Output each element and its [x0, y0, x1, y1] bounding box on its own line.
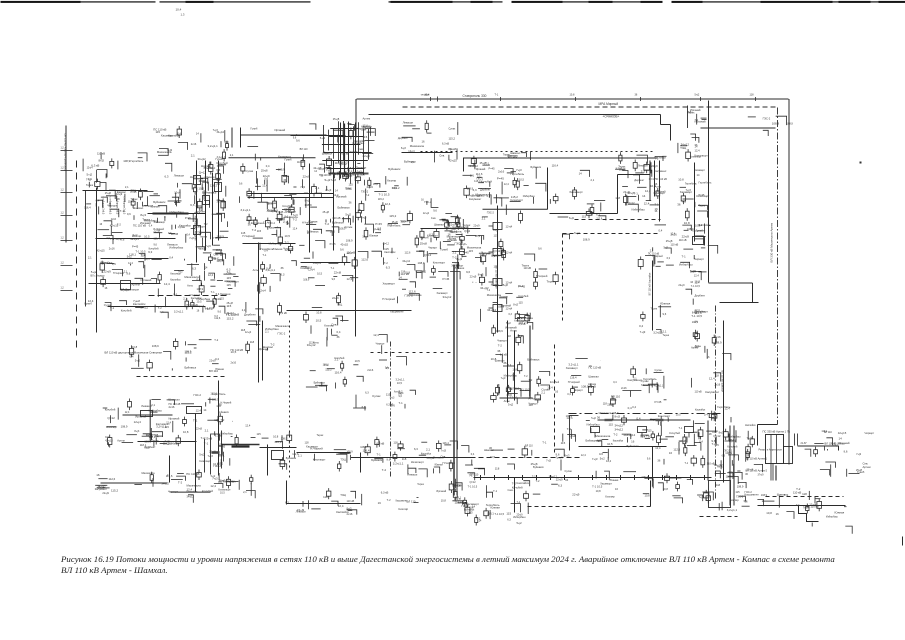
- svg-text:Сев.: Сев.: [358, 147, 364, 151]
- node chain box: [493, 249, 502, 256]
- dense column bl box: [197, 473, 202, 478]
- center chain c wire: [498, 384, 500, 395]
- left blob east wire: [169, 232, 175, 234]
- center chain b wire: [516, 296, 523, 298]
- left blob east wire: [202, 238, 204, 247]
- loop area b wire: [333, 318, 338, 325]
- node midright a stub: [572, 386, 574, 389]
- svg-text:Терек: Терек: [152, 438, 160, 442]
- svg-text:Буйнакск: Буйнакск: [314, 381, 326, 385]
- svg-text:Чирюрт: Чирюрт: [529, 402, 539, 406]
- svg-text:Сев.: Сев.: [323, 150, 329, 154]
- svg-text:Махачкала: Махачкала: [467, 246, 482, 250]
- center right a stub: [591, 213, 593, 216]
- svg-text:Терек: Терек: [699, 205, 706, 208]
- center chain b stub: [526, 313, 528, 316]
- left blob east wire: [215, 237, 228, 239]
- left blob south wire: [151, 278, 156, 283]
- left blob sw wire: [135, 278, 143, 284]
- svg-text:118: 118: [716, 483, 721, 487]
- center chain c box: [491, 396, 496, 400]
- wire col x729: [729, 426, 731, 506]
- svg-text:Н.Чиркей: Н.Чиркей: [568, 380, 580, 384]
- svg-text:ТЭЦ: ТЭЦ: [680, 146, 687, 150]
- row y350 west wire: [188, 344, 197, 346]
- mid blob a wire: [256, 178, 258, 190]
- node right mid box: [638, 260, 643, 267]
- right col bottom stub: [702, 465, 704, 468]
- labels right of artem stub: [815, 447, 817, 450]
- svg-text:Избербаш: Избербаш: [353, 142, 365, 145]
- center chain c box: [506, 388, 510, 392]
- svg-text:Сев.: Сев.: [439, 154, 445, 158]
- svg-text:Касумкент: Касумкент: [745, 493, 760, 497]
- row y350 west stub: [175, 338, 177, 341]
- node Artem top wire: [701, 117, 707, 119]
- mid blob a stub: [291, 204, 293, 207]
- svg-text:10,5: 10,5: [519, 177, 525, 181]
- bus Makhachkala stub: [625, 203, 627, 206]
- wire mkh a: [649, 161, 651, 201]
- svg-text:36: 36: [745, 500, 748, 504]
- svg-text:14: 14: [477, 194, 481, 198]
- right col lower wire: [722, 354, 731, 361]
- left blob core wire: [124, 194, 126, 202]
- svg-text:Р=45: Р=45: [132, 245, 139, 249]
- bus Chiryurt box: [349, 131, 353, 137]
- node Kizlyar area wire: [225, 141, 229, 143]
- chain mid b wire: [374, 459, 383, 463]
- loop area c wire: [306, 386, 318, 388]
- left blob sw stub: [102, 277, 104, 280]
- chain mid g box: [691, 458, 696, 463]
- right col bottom wire: [731, 460, 733, 466]
- bus Makhachkala box: [619, 155, 622, 161]
- svg-text:115,2: 115,2: [111, 488, 118, 492]
- wire dashed down: [562, 234, 564, 321]
- right col upper wire: [694, 202, 696, 207]
- wire dashed mid: [371, 352, 453, 354]
- bus Makhachkala wire: [655, 156, 663, 161]
- svg-text:Т-1: Т-1: [493, 489, 498, 493]
- right col y420 stub: [725, 429, 727, 432]
- center col a stub: [421, 228, 423, 231]
- svg-text:2,1: 2,1: [191, 154, 195, 158]
- svg-text:6,3 кВ: 6,3 кВ: [569, 434, 576, 438]
- wire left lower horizontal: [108, 306, 206, 308]
- svg-text:115,2: 115,2: [641, 475, 648, 479]
- svg-text:14: 14: [314, 170, 317, 173]
- node Kizlyar area stub: [226, 141, 228, 144]
- left blob east wire: [213, 250, 222, 256]
- svg-text:Н.Чиркей: Н.Чиркей: [221, 402, 232, 405]
- svg-text:0,4: 0,4: [613, 381, 617, 384]
- svg-text:Каспийск: Каспийск: [745, 424, 756, 427]
- svg-text:Терек: Терек: [86, 183, 94, 187]
- loop area c box: [341, 364, 344, 369]
- svg-text:Т-1: Т-1: [154, 220, 158, 223]
- svg-text:22+j9: 22+j9: [651, 164, 658, 168]
- mid blob a wire: [258, 202, 268, 209]
- svg-text:Чирюрт: Чирюрт: [497, 339, 507, 343]
- row y420 a stub: [623, 415, 625, 418]
- node bl b wire: [181, 403, 194, 405]
- left blob south wire: [191, 263, 193, 276]
- center chain b wire: [529, 313, 531, 319]
- row y420 b wire: [686, 437, 688, 443]
- right col lower wire: [706, 349, 708, 359]
- chain mid b wire: [336, 454, 347, 463]
- svg-text:115,2: 115,2: [325, 368, 332, 372]
- node midright b wire: [656, 382, 658, 390]
- svg-text:Q=12: Q=12: [470, 481, 477, 484]
- svg-text:115: 115: [735, 490, 740, 494]
- svg-text:2,1: 2,1: [151, 403, 155, 407]
- wire stub x687: [687, 106, 689, 129]
- chain mid f wire: [603, 452, 608, 454]
- center chain a stub: [502, 255, 504, 258]
- wire left loop vertical: [258, 243, 260, 383]
- wire mkh c: [659, 161, 661, 222]
- svg-text:2,1: 2,1: [285, 215, 289, 219]
- svg-text:2х16: 2х16: [109, 247, 115, 251]
- node right mid2 wire: [658, 306, 671, 308]
- left blob east box: [221, 201, 226, 208]
- svg-text:36: 36: [213, 257, 217, 261]
- mid blob c wire: [342, 219, 351, 225]
- mid blob d wire: [313, 229, 322, 234]
- wire thick gray: [153, 212, 189, 214]
- wire tick: [676, 475, 678, 480]
- bus Makhachkala wire: [650, 204, 659, 206]
- right col y420 wire: [693, 434, 695, 446]
- svg-text:25+j8: 25+j8: [227, 302, 234, 305]
- left blob east wire: [215, 254, 225, 259]
- row y420 b stub: [652, 431, 654, 434]
- right col y420 wire: [698, 432, 700, 439]
- svg-text:115: 115: [469, 249, 474, 253]
- row y350 west stub: [175, 347, 177, 350]
- svg-text:Кочубей: Кочубей: [727, 444, 738, 448]
- labels right of artem wire: [805, 449, 811, 457]
- loop area d wire: [379, 335, 387, 343]
- svg-text:Махачкала: Махачкала: [447, 234, 461, 238]
- svg-text:16: 16: [615, 487, 618, 491]
- svg-text:22+j9: 22+j9: [572, 493, 579, 497]
- svg-text:Шамхал: Шамхал: [263, 345, 274, 349]
- node Kizlyar area stub: [226, 148, 228, 151]
- center col a wire: [443, 240, 451, 242]
- svg-text:7+j3: 7+j3: [856, 452, 862, 456]
- wire center up2: [617, 175, 619, 214]
- center chain c stub: [519, 362, 521, 365]
- svg-text:115,2: 115,2: [389, 214, 396, 218]
- mid blob c wire: [337, 173, 346, 179]
- svg-text:14: 14: [579, 172, 583, 176]
- row y350 west wire: [138, 354, 140, 366]
- left blob south box: [199, 286, 204, 292]
- svg-text:2х16: 2х16: [191, 143, 197, 146]
- svg-text:108,9: 108,9: [772, 122, 780, 126]
- right col upper wire: [708, 245, 718, 253]
- bus Chiryurt feeder: [333, 128, 335, 159]
- svg-text:Буйнакск: Буйнакск: [286, 457, 297, 460]
- svg-text:Буйнакск: Буйнакск: [404, 160, 416, 164]
- row y420 b wire: [641, 434, 649, 436]
- svg-text:Р=45: Р=45: [655, 400, 662, 404]
- scan bar dark segment: [511, 1, 563, 3]
- left blob east stub: [210, 162, 212, 165]
- svg-text:108,9: 108,9: [715, 341, 722, 345]
- svg-text:10,8: 10,8: [570, 94, 575, 97]
- svg-text:с отбором 2x6,3: с отбором 2x6,3: [123, 197, 126, 215]
- svg-text:Гуниб: Гуниб: [250, 126, 257, 130]
- svg-text:3,2+j1,1: 3,2+j1,1: [396, 378, 406, 381]
- svg-text:ТЭЦ: ТЭЦ: [340, 459, 345, 462]
- left of artem stub: [751, 436, 753, 439]
- mid blob c stub: [313, 184, 315, 187]
- mid blob e box: [359, 204, 364, 211]
- node right mid wire: [666, 264, 674, 266]
- node bl a box: [108, 438, 112, 445]
- wire dashed c1: [575, 219, 661, 221]
- row y420 b wire: [659, 438, 667, 440]
- left blob core wire: [158, 206, 167, 213]
- center chain a wire: [460, 239, 462, 249]
- row y420 b stub: [658, 433, 660, 436]
- svg-text:34+j12: 34+j12: [187, 496, 195, 499]
- sw chain wire: [171, 479, 183, 481]
- left blob east stub: [199, 199, 201, 202]
- node Artem top wire: [702, 118, 707, 120]
- svg-text:115: 115: [349, 183, 354, 187]
- svg-text:115: 115: [712, 430, 717, 434]
- svg-text:10,8: 10,8: [319, 167, 325, 171]
- left blob east wire: [218, 201, 224, 209]
- wire busy column: [218, 381, 220, 476]
- left blob south box: [191, 303, 194, 307]
- svg-text:9,6: 9,6: [296, 139, 300, 143]
- wire left vertical: [96, 188, 98, 333]
- svg-text:116,4: 116,4: [729, 439, 736, 442]
- wire below top long: [464, 157, 657, 159]
- svg-text:22+j9: 22+j9: [682, 234, 690, 238]
- svg-text:Т-2: Т-2: [178, 480, 183, 484]
- wire bottom long: [474, 477, 712, 479]
- node midright b wire: [651, 379, 653, 387]
- svg-text:115: 115: [227, 276, 232, 280]
- scan bar dark segment: [1, 1, 81, 3]
- svg-text:Р=45: Р=45: [374, 228, 381, 232]
- node bl a wire: [122, 442, 134, 444]
- mid blob a wire: [246, 219, 258, 221]
- left blob south wire: [165, 297, 167, 307]
- labels right edge wire: [820, 470, 830, 476]
- dense column bl wire: [221, 444, 223, 455]
- left blob nw box: [95, 182, 100, 187]
- wire drop to Chiryurt: [355, 99, 357, 138]
- row y420 a box: [622, 418, 627, 422]
- svg-text:8+j3: 8+j3: [401, 147, 406, 150]
- chain mid g wire: [687, 445, 697, 447]
- wire sw h2: [171, 491, 211, 493]
- mid blob c wire: [348, 215, 350, 222]
- svg-text:ГЭС-2: ГЭС-2: [194, 393, 202, 397]
- svg-text:7+j3: 7+j3: [501, 377, 506, 380]
- chain mid a stub: [281, 457, 283, 460]
- svg-text:Т-1: Т-1: [262, 253, 266, 257]
- svg-text:Кочубей: Кочубей: [217, 161, 229, 165]
- svg-text:10,5: 10,5: [490, 455, 496, 459]
- chain mid d wire: [491, 449, 503, 451]
- chain mid e stub: [524, 455, 526, 458]
- svg-text:Ирганай: Ирганай: [141, 278, 152, 282]
- svg-text:3,2+j1,1: 3,2+j1,1: [208, 144, 219, 148]
- svg-text:12,4: 12,4: [645, 189, 651, 193]
- node center d wire: [353, 407, 366, 409]
- svg-text:ПС 110 кВ: ПС 110 кВ: [655, 177, 668, 181]
- node bl a wire: [142, 435, 153, 437]
- left of artem stub: [751, 444, 753, 447]
- svg-text:Кочубей: Кочубей: [335, 356, 345, 360]
- left blob core wire: [143, 191, 153, 193]
- svg-text:Южная: Южная: [205, 175, 215, 179]
- left blob core wire: [154, 233, 160, 238]
- right col bottom wire: [733, 446, 735, 457]
- left blob core wire: [154, 232, 163, 234]
- left blob core wire: [130, 264, 132, 266]
- center chain a stub: [503, 257, 505, 260]
- wire drop B: [267, 445, 269, 476]
- svg-text:116,4: 116,4: [552, 163, 559, 167]
- svg-text:118,1: 118,1: [420, 270, 427, 274]
- right col upper wire: [695, 239, 704, 246]
- right col mid wire: [693, 255, 695, 259]
- chain mid b stub: [338, 469, 340, 472]
- svg-text:Т-2: Т-2: [325, 222, 330, 226]
- svg-text:Гергебиль: Гергебиль: [685, 182, 698, 185]
- mid blob b stub: [267, 218, 269, 221]
- svg-text:Касумкент: Касумкент: [95, 488, 108, 491]
- center chain c box: [537, 379, 541, 383]
- svg-text:16: 16: [378, 501, 382, 505]
- svg-text:34+j12: 34+j12: [161, 483, 169, 486]
- left of artem wire: [745, 451, 747, 462]
- mid blob c stub: [357, 210, 359, 213]
- mid blob c box: [301, 161, 305, 167]
- svg-text:36: 36: [337, 335, 340, 339]
- left blob south stub: [159, 280, 161, 283]
- right col upper wire: [695, 235, 703, 237]
- mid blob d stub: [354, 257, 356, 260]
- wire col x733: [733, 426, 735, 506]
- left blob nw stub: [140, 197, 142, 200]
- bus Chiryurt stub: [344, 172, 346, 175]
- bus Chiryurt wire: [352, 171, 363, 173]
- svg-text:9,6: 9,6: [647, 457, 651, 460]
- bus Makhachkala wire: [637, 195, 639, 201]
- svg-text:6,3: 6,3: [281, 272, 285, 276]
- wire tick: [690, 475, 692, 480]
- svg-text:112,6: 112,6: [190, 176, 197, 179]
- bus Chiryurt wire: [347, 123, 351, 125]
- svg-text:110 кВ: 110 кВ: [671, 243, 679, 247]
- svg-text:10,5: 10,5: [650, 184, 656, 188]
- bus Makhachkala box: [644, 165, 650, 171]
- svg-text:0,4: 0,4: [169, 256, 173, 260]
- svg-text:2,1: 2,1: [88, 256, 92, 260]
- left blob nw stub: [111, 165, 113, 168]
- node bl c wire: [150, 428, 152, 441]
- svg-text:115: 115: [506, 511, 511, 515]
- bus Makhachkala stub: [634, 160, 636, 163]
- left blob sw wire: [119, 301, 126, 305]
- wire mkh b: [654, 161, 656, 197]
- svg-text:115: 115: [648, 430, 653, 433]
- wire thin under: [148, 213, 206, 215]
- node chain box: [493, 305, 502, 312]
- chain mid d wire: [507, 464, 514, 470]
- node right mid wire: [664, 248, 671, 254]
- svg-text:118: 118: [750, 94, 755, 97]
- left blob east wire: [172, 197, 179, 203]
- svg-text:Касумкент: Касумкент: [705, 390, 720, 394]
- loop area b box: [304, 315, 309, 321]
- svg-text:6,3: 6,3: [285, 500, 289, 504]
- chain mid a box: [287, 435, 292, 440]
- node Kizlyar area wire: [178, 143, 188, 150]
- node bl a wire: [152, 432, 163, 437]
- wire tick: [508, 475, 510, 480]
- wire bl h1: [138, 441, 197, 443]
- svg-text:34+j12: 34+j12: [443, 295, 452, 299]
- svg-text:Т-1: Т-1: [685, 462, 689, 465]
- chain mid g stub: [683, 444, 685, 447]
- node bl b stub: [184, 417, 186, 420]
- svg-text:ГЭС-2: ГЭС-2: [480, 254, 488, 257]
- center chain a wire: [472, 281, 474, 284]
- chain mid g wire: [678, 442, 680, 455]
- bus Chiryurt feeder: [363, 129, 365, 175]
- bus Chiryurt wire: [355, 177, 357, 179]
- mid blob f box: [364, 230, 368, 236]
- svg-text:16: 16: [470, 505, 474, 509]
- bus Chiryurt stub: [350, 128, 352, 131]
- svg-text:Дербент: Дербент: [285, 210, 297, 214]
- mid blob c wire: [352, 216, 354, 223]
- svg-text:7+j3: 7+j3: [331, 178, 337, 182]
- node midright b wire: [654, 372, 664, 374]
- scan bar dark segment: [879, 1, 905, 3]
- svg-text:Т-1: Т-1: [469, 475, 473, 478]
- row y420 b box: [657, 436, 661, 443]
- center right a stub: [555, 194, 557, 197]
- svg-text:ВЛ 110 кВ Кизляр-Крайновка: ВЛ 110 кВ Кизляр-Крайновка: [64, 134, 68, 172]
- mid blob b wire: [253, 237, 263, 239]
- node Artem top wire: [692, 137, 699, 142]
- left blob east wire: [225, 186, 227, 197]
- row y420 a wire: [586, 419, 590, 421]
- center chain c stub: [519, 371, 521, 374]
- row y350 west box: [147, 363, 152, 368]
- svg-text:Ирганай: Ирганай: [476, 168, 486, 171]
- svg-text:Южная: Южная: [660, 301, 670, 305]
- svg-text:14: 14: [155, 434, 159, 438]
- svg-text:2,1: 2,1: [124, 269, 128, 273]
- svg-text:10,8: 10,8: [183, 430, 189, 434]
- svg-text:115: 115: [257, 432, 262, 436]
- svg-text:ВЛ 110 кВ Кизилюрт: ВЛ 110 кВ Кизилюрт: [495, 266, 498, 290]
